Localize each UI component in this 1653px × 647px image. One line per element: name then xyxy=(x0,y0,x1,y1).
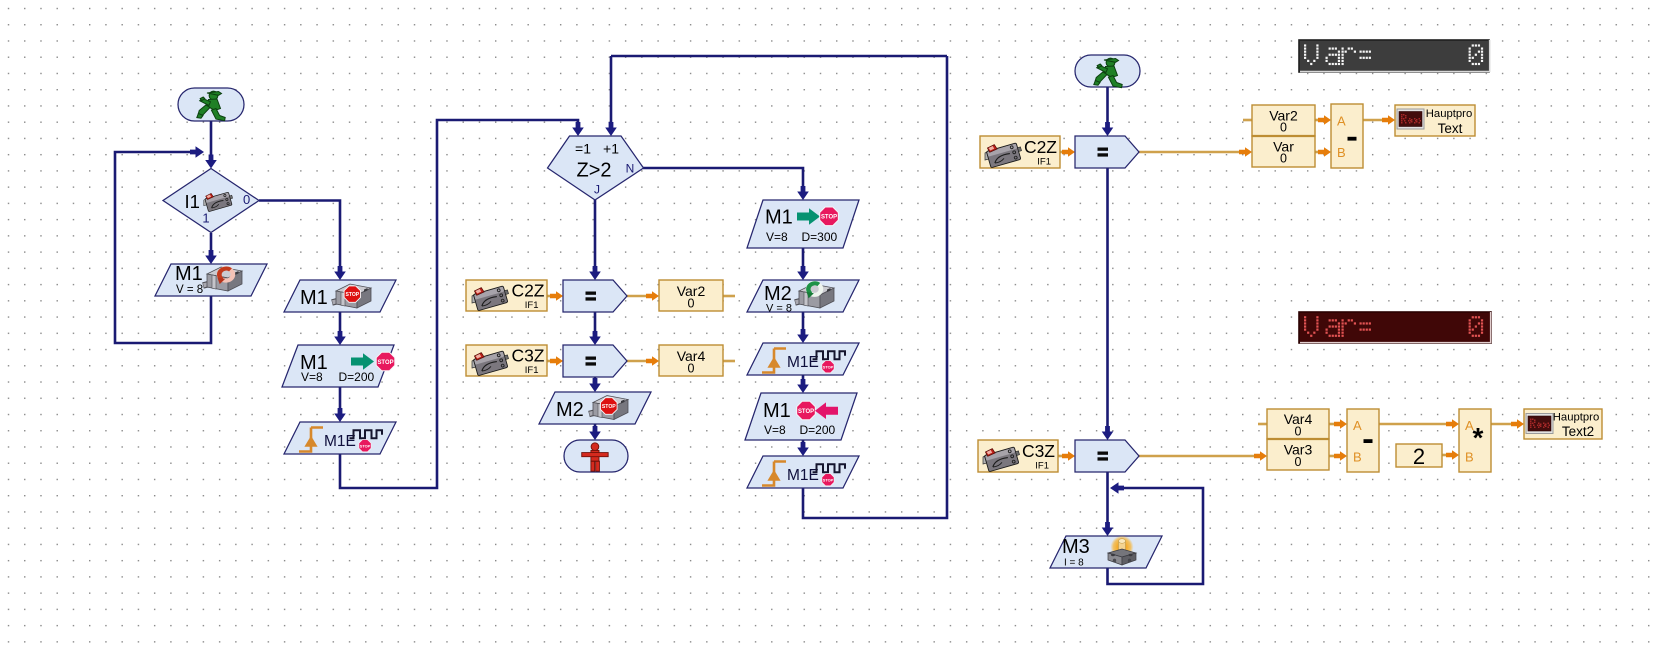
svg-text:V=8: V=8 xyxy=(301,370,323,384)
svg-text:M1E: M1E xyxy=(787,467,819,484)
svg-text:M1: M1 xyxy=(765,207,793,229)
svg-text:Text: Text xyxy=(1438,121,1463,136)
svg-text:Hauptpro: Hauptpro xyxy=(1426,108,1472,120)
svg-text:C3Z: C3Z xyxy=(511,346,544,366)
svg-text:V = 8: V = 8 xyxy=(766,303,792,315)
svg-text:I1: I1 xyxy=(185,191,200,212)
svg-text:D=300: D=300 xyxy=(802,230,838,244)
svg-text:0: 0 xyxy=(688,297,695,311)
svg-text:D=200: D=200 xyxy=(339,370,375,384)
svg-text:M1: M1 xyxy=(300,287,328,309)
svg-text:V=8: V=8 xyxy=(764,423,786,437)
svg-text:Hauptpro: Hauptpro xyxy=(1553,412,1599,424)
svg-text:V = 8: V = 8 xyxy=(176,284,203,296)
svg-text:IF1: IF1 xyxy=(1037,157,1051,168)
svg-text:0: 0 xyxy=(1280,152,1287,166)
svg-text:IF1: IF1 xyxy=(1035,461,1049,472)
svg-text:M3: M3 xyxy=(1062,536,1090,558)
svg-text:0: 0 xyxy=(688,362,695,376)
svg-text:0: 0 xyxy=(243,192,250,207)
svg-text:N: N xyxy=(626,162,635,176)
svg-text:D=200: D=200 xyxy=(800,423,836,437)
svg-text:B: B xyxy=(1353,450,1362,465)
svg-text:Text2: Text2 xyxy=(1562,424,1594,439)
svg-text:M1E: M1E xyxy=(324,433,356,450)
svg-text:C2Z: C2Z xyxy=(511,281,544,301)
svg-text:C3Z: C3Z xyxy=(1022,441,1055,461)
svg-text:A: A xyxy=(1337,114,1346,129)
svg-text:Z>2: Z>2 xyxy=(576,160,611,182)
svg-text:M1: M1 xyxy=(763,400,791,422)
svg-text:A: A xyxy=(1353,418,1362,433)
svg-text:*: * xyxy=(1473,422,1484,453)
svg-text:=1: =1 xyxy=(575,141,591,157)
svg-text:M2: M2 xyxy=(556,399,584,421)
svg-text:IF1: IF1 xyxy=(525,300,539,311)
svg-text:J: J xyxy=(594,183,600,197)
svg-text:M1E: M1E xyxy=(787,354,819,371)
svg-text:+1: +1 xyxy=(603,141,619,157)
svg-text:2: 2 xyxy=(1413,444,1425,469)
svg-text:0: 0 xyxy=(1295,455,1302,469)
svg-text:V=8: V=8 xyxy=(766,230,788,244)
svg-text:0: 0 xyxy=(1295,425,1302,439)
svg-text:1: 1 xyxy=(202,211,209,226)
svg-text:I = 8: I = 8 xyxy=(1064,558,1084,569)
svg-text:IF1: IF1 xyxy=(525,365,539,376)
svg-text:0: 0 xyxy=(1280,121,1287,135)
svg-text:B: B xyxy=(1337,145,1346,160)
svg-text:C2Z: C2Z xyxy=(1024,137,1057,157)
svg-text:M1: M1 xyxy=(175,263,203,285)
